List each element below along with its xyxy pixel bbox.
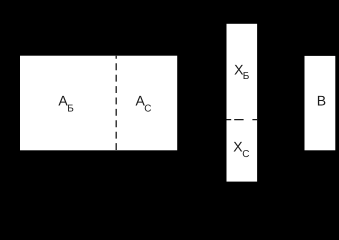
svg-text:Б: Б <box>243 71 250 82</box>
dashed divider in block A <box>115 56 117 151</box>
dashed divider in block X <box>227 119 258 121</box>
svg-text:С: С <box>144 104 151 115</box>
svg-text:Б: Б <box>67 104 74 115</box>
svg-text:В: В <box>317 93 326 109</box>
block X (middle tall rectangle) <box>227 24 258 182</box>
block A (left rectangle) <box>20 56 177 151</box>
svg-text:С: С <box>242 149 249 160</box>
block B (right rectangle) <box>305 56 336 150</box>
